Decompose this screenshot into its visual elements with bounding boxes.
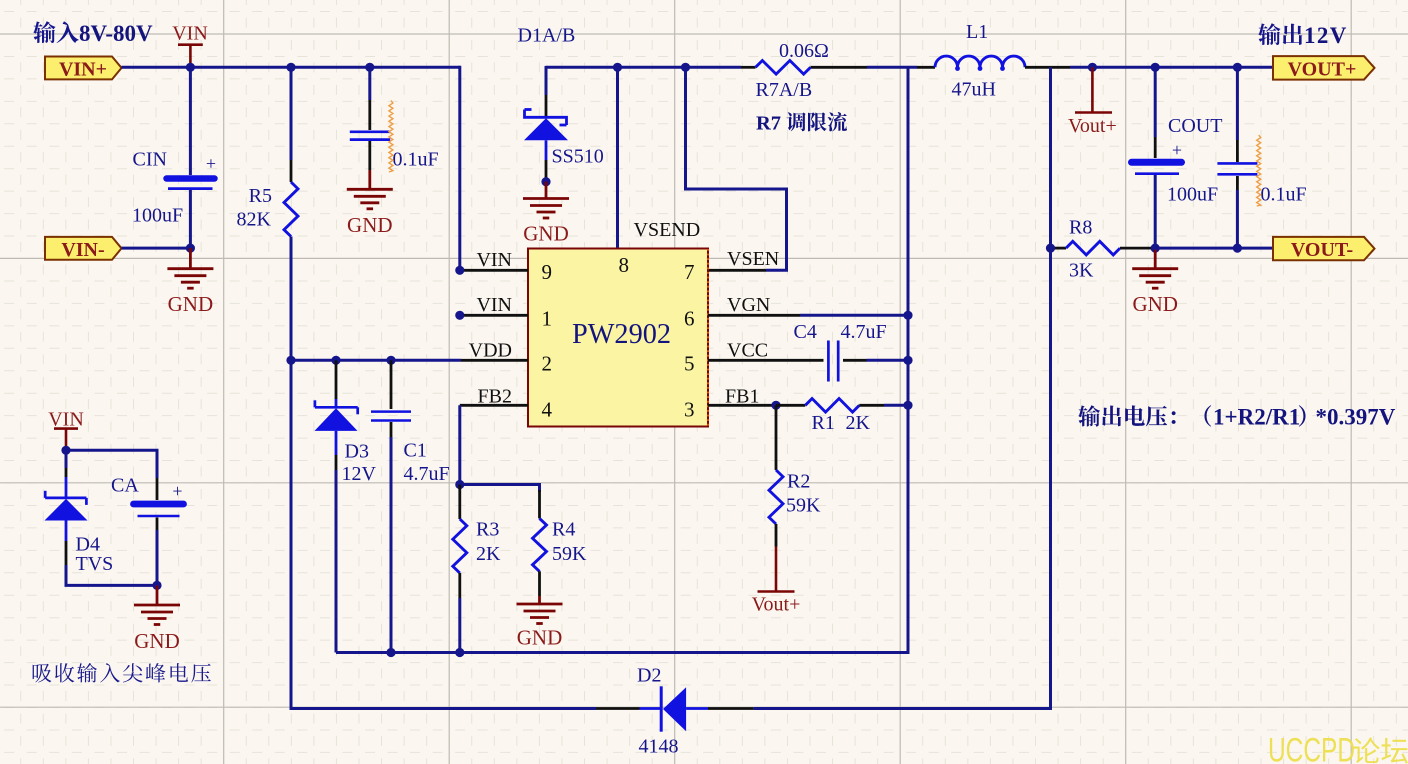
wire VSEN pin7: [686, 67, 787, 270]
svg-text:VOUT+: VOUT+: [1288, 59, 1357, 81]
capacitor C-0.1uF output: [1217, 67, 1306, 248]
svg-text:2K: 2K: [846, 412, 871, 434]
svg-text:GND: GND: [523, 222, 569, 246]
junction output 0.1uF bottom: [1233, 244, 1242, 253]
power port Vout+ at output: [1068, 67, 1117, 137]
note output voltage formula: [1078, 405, 1396, 430]
svg-text:4.7uF: 4.7uF: [404, 463, 450, 485]
svg-text:VGN: VGN: [727, 294, 770, 316]
junction FB1 node: [771, 401, 780, 410]
svg-text:82K: 82K: [237, 209, 272, 231]
diode D2 4148: [596, 665, 753, 758]
junction VIN+/C-0.1uF: [365, 63, 374, 72]
connector VIN+: [45, 57, 122, 81]
resistor R3 2K: [453, 485, 501, 653]
wire output to D2 rail: [753, 67, 1050, 708]
title 输出12V: [1258, 23, 1348, 48]
junction pin1: [455, 311, 464, 320]
error marker squiggle at input 0.1uF: [389, 101, 393, 173]
svg-text:PW2902: PW2902: [572, 318, 671, 350]
svg-text:7: 7: [684, 260, 695, 284]
diode D4 TVS: [45, 450, 114, 575]
svg-text:R3: R3: [476, 519, 499, 541]
watermark UCCPD论坛: [1268, 732, 1408, 764]
svg-text:VSEN: VSEN: [727, 248, 779, 270]
svg-text:9: 9: [542, 260, 553, 284]
capacitor CIN 100uF: [132, 67, 216, 248]
svg-text:VSEND: VSEND: [634, 219, 701, 241]
junction VGN right rail: [903, 311, 912, 320]
svg-text:R8: R8: [1069, 217, 1092, 239]
svg-text:GND: GND: [1132, 292, 1178, 316]
svg-text:0.06Ω: 0.06Ω: [779, 40, 829, 62]
junction R1 right rail: [903, 401, 912, 410]
resistor R1 2K: [776, 399, 908, 434]
junction VIN+/CIN: [186, 63, 195, 72]
wire VIN- to CIN: [122, 247, 191, 250]
svg-text:4148: 4148: [639, 735, 679, 757]
svg-text:4: 4: [542, 397, 553, 421]
junction VSEN net: [681, 63, 690, 72]
wire VIN to CA: [66, 450, 157, 478]
svg-text:59K: 59K: [552, 543, 587, 565]
junction VDD/C1: [386, 356, 395, 365]
svg-text:VIN-: VIN-: [61, 239, 104, 261]
wire VDD net: [291, 339, 528, 361]
svg-text:1: 1: [542, 307, 553, 331]
svg-text:VIN: VIN: [476, 294, 512, 316]
junction VIN+/R5: [286, 63, 295, 72]
wire VIN+ rail: [122, 66, 460, 270]
svg-text:COUT: COUT: [1168, 115, 1222, 137]
junction VDD/D3: [331, 356, 340, 365]
connector VOUT+: [1273, 56, 1375, 81]
junction COUT top: [1151, 63, 1160, 72]
note R7调限流: [756, 112, 847, 135]
ground GND at input 0.1uF: [347, 170, 393, 237]
svg-text:Vout+: Vout+: [1068, 115, 1117, 137]
svg-text:12V: 12V: [342, 463, 377, 485]
svg-text:VIN: VIN: [476, 249, 512, 271]
svg-text:12V: 12V: [1304, 23, 1348, 48]
svg-text:D1A/B: D1A/B: [518, 25, 576, 47]
svg-text:8V-80V: 8V-80V: [79, 21, 153, 46]
svg-text:FB1: FB1: [725, 386, 759, 408]
junction rail/R3: [455, 648, 464, 657]
inductor L1 47uH: [935, 21, 1025, 101]
note 吸收输入尖峰电压: [33, 663, 211, 683]
wire right rail: [336, 67, 908, 652]
svg-text:VCC: VCC: [727, 340, 768, 362]
diode D3 12V: [315, 360, 377, 652]
power port VIN at D4: [48, 409, 84, 451]
svg-text:3: 3: [684, 397, 695, 421]
resistor R7A/B 0.06ohm: [756, 40, 829, 101]
pin VIN (1) wire: [460, 294, 528, 316]
svg-text:R7A/B: R7A/B: [756, 79, 813, 101]
svg-text:VOUT-: VOUT-: [1291, 239, 1353, 261]
junction rail/C1: [386, 648, 395, 657]
svg-text:FB2: FB2: [478, 386, 512, 408]
junction VDD/R5: [286, 356, 295, 365]
svg-text:Vout+: Vout+: [752, 594, 801, 616]
capacitor CA: [111, 475, 184, 586]
ground GND at COUT: [1132, 248, 1178, 316]
capacitor COUT 100uF: [1132, 67, 1223, 248]
svg-text:C4: C4: [794, 321, 817, 343]
svg-text:R2: R2: [787, 471, 810, 493]
svg-text:VIN: VIN: [172, 23, 208, 45]
ground GND at CIN: [167, 248, 213, 316]
error marker squiggle at output 0.1uF: [1257, 135, 1261, 206]
junction VCC right rail: [903, 356, 912, 365]
junction D1 anode: [541, 177, 550, 186]
junction CIN/VIN-: [186, 244, 195, 253]
pin VIN (9) wire: [460, 249, 528, 271]
junction pin8 net: [613, 63, 622, 72]
svg-text:2: 2: [542, 352, 553, 376]
svg-text:0.1uF: 0.1uF: [393, 148, 439, 170]
junction COUT bottom: [1151, 244, 1160, 253]
wire switch node: [546, 66, 935, 69]
svg-text:3K: 3K: [1069, 260, 1094, 282]
svg-text:VIN+: VIN+: [59, 59, 107, 81]
svg-text:59K: 59K: [786, 495, 821, 517]
wire output node: [1025, 66, 1273, 69]
svg-text:TVS: TVS: [76, 553, 114, 575]
ground GND at D1: [523, 182, 569, 246]
svg-text:+: +: [172, 481, 182, 501]
svg-text:SS510: SS510: [552, 146, 604, 168]
junction pin9: [455, 266, 464, 275]
diode D1A/B SS510: [518, 25, 604, 179]
junction output 0.1uF top: [1233, 63, 1242, 72]
svg-text:R4: R4: [552, 519, 575, 541]
svg-text:47uH: 47uH: [952, 79, 996, 101]
svg-text:GND: GND: [168, 292, 214, 316]
capacitor C4 4.7uF: [794, 321, 909, 382]
svg-text:UCCPD: UCCPD: [1268, 732, 1355, 764]
junction CA/GND: [152, 581, 161, 590]
svg-text:GND: GND: [517, 626, 563, 650]
title 输入8V-80V: [33, 21, 153, 46]
svg-text:2K: 2K: [476, 543, 501, 565]
ground GND at CA: [134, 585, 180, 653]
resistor R4 59K: [533, 490, 588, 596]
junction FB2 node: [455, 480, 464, 489]
svg-text:CIN: CIN: [133, 148, 167, 170]
svg-text:*0.397V: *0.397V: [1316, 405, 1396, 430]
resistor R2 59K: [769, 405, 821, 546]
capacitor C-0.1uF input: [350, 67, 439, 170]
ground GND at R4: [517, 596, 563, 650]
svg-text:+: +: [206, 154, 216, 174]
svg-text:C1: C1: [404, 440, 427, 462]
svg-text:CA: CA: [111, 475, 139, 497]
pin VGN (6) wire: [708, 294, 908, 316]
svg-text:GND: GND: [134, 629, 180, 653]
svg-text:D3: D3: [345, 441, 369, 463]
svg-text:100uF: 100uF: [132, 205, 183, 227]
capacitor C1 4.7uF: [371, 360, 450, 652]
svg-text:4.7uF: 4.7uF: [841, 321, 887, 343]
pin FB2 (4) wire: [460, 386, 528, 485]
junction R8 left: [1046, 244, 1055, 253]
op-amp U1 PW2902: [528, 249, 708, 427]
connector VIN-: [45, 237, 122, 261]
wire FB2 to R4: [460, 485, 540, 493]
svg-text:GND: GND: [347, 213, 393, 237]
svg-text:100uF: 100uF: [1167, 184, 1218, 206]
pin FB1 (3) wire: [708, 386, 776, 408]
svg-text:L1: L1: [966, 21, 988, 43]
junction VIN/D4: [61, 446, 70, 455]
power port Vout+ at R2: [752, 547, 801, 616]
svg-text:5: 5: [684, 352, 695, 376]
svg-text:8: 8: [619, 253, 630, 277]
pin VCC (5) wire: [708, 340, 824, 362]
svg-text:VDD: VDD: [469, 339, 512, 361]
svg-text:R1: R1: [812, 412, 835, 434]
svg-text:R5: R5: [249, 185, 272, 207]
svg-text:1+R2/R1: 1+R2/R1: [1213, 405, 1300, 430]
svg-text:R7: R7: [756, 113, 781, 135]
svg-text:VIN: VIN: [48, 409, 84, 431]
power port VIN: [172, 23, 208, 68]
resistor R5 82K: [237, 67, 298, 360]
svg-text:D2: D2: [637, 665, 661, 687]
resistor R8 3K: [1051, 217, 1274, 282]
wire VSEND pin8: [616, 67, 619, 248]
junction Vout+ port: [1088, 63, 1097, 72]
svg-text:0.1uF: 0.1uF: [1261, 184, 1307, 206]
svg-text:+: +: [1172, 140, 1182, 160]
svg-text:6: 6: [684, 307, 695, 331]
connector VOUT-: [1273, 237, 1375, 261]
wire D4 to GND node: [66, 565, 157, 585]
wire R5 lower to D2 rail: [291, 360, 596, 708]
